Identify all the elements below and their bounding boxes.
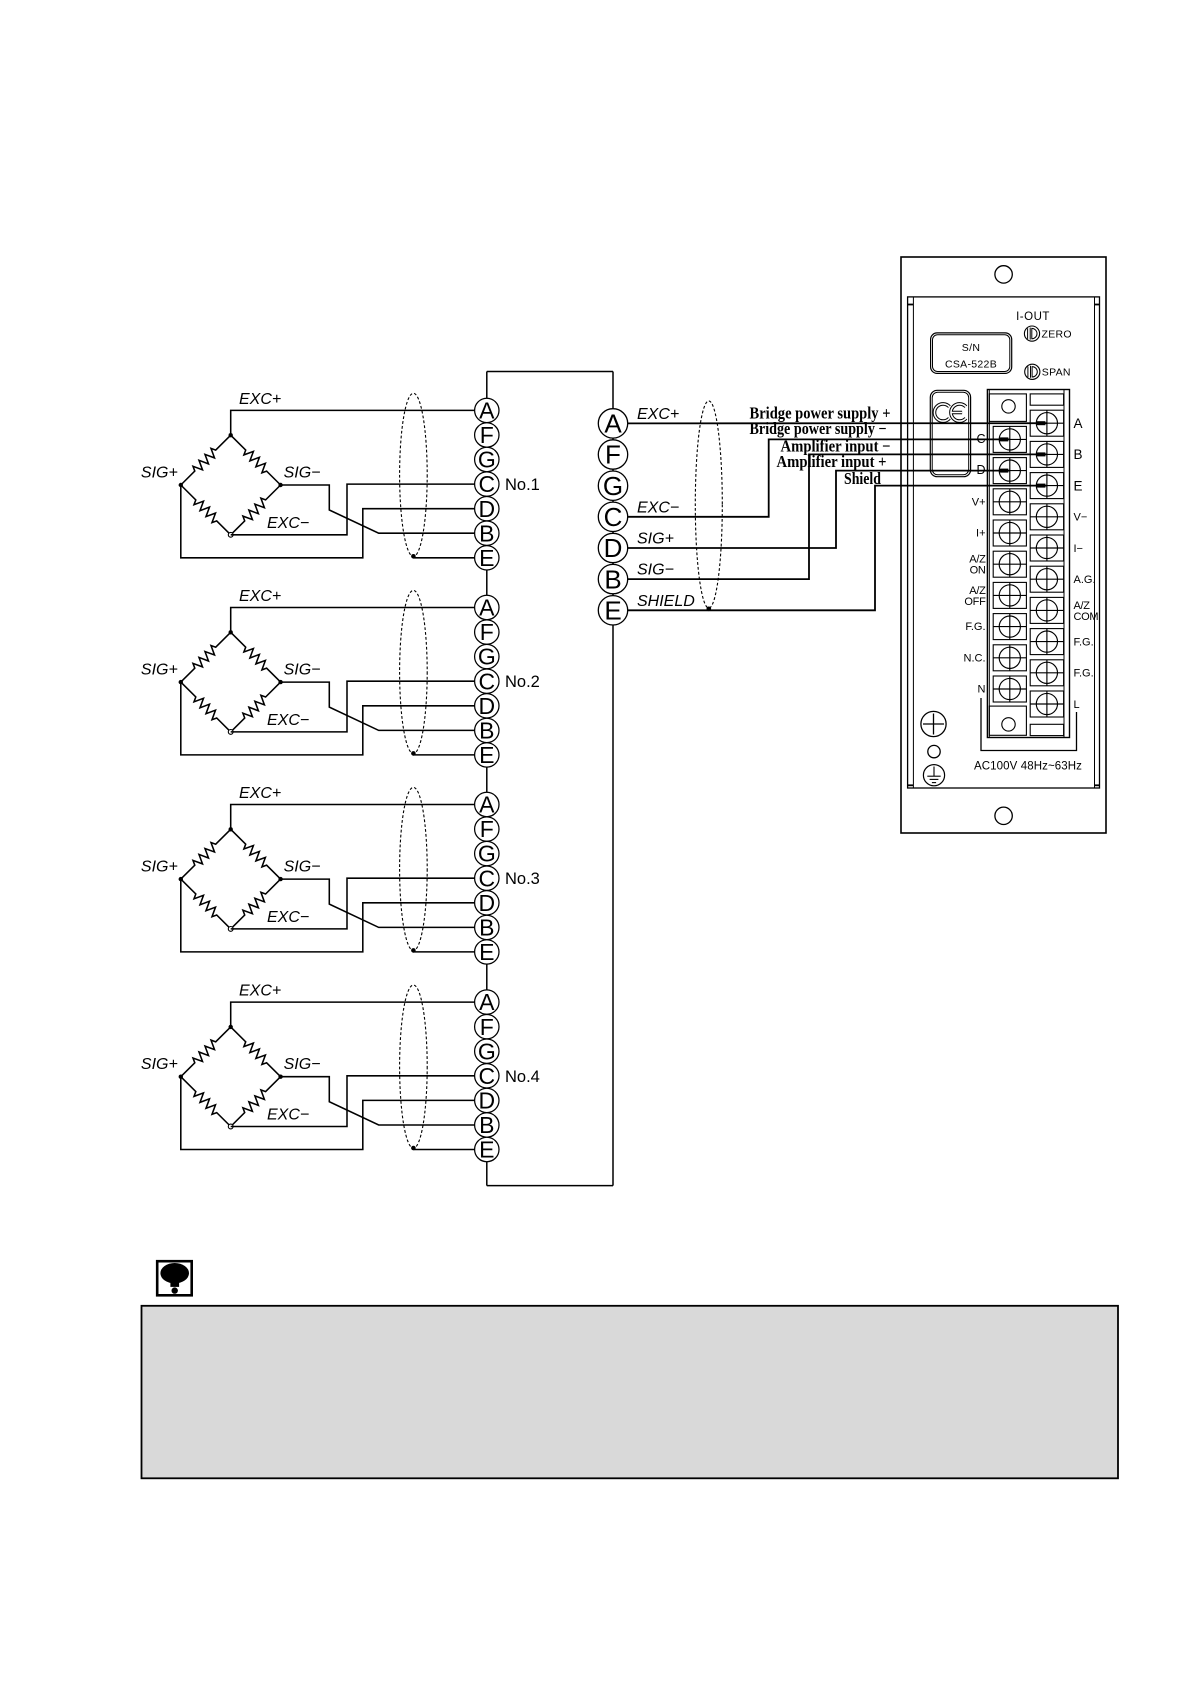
svg-text:A: A	[479, 989, 495, 1015]
svg-text:F: F	[480, 1014, 494, 1040]
note icon	[157, 1261, 192, 1295]
wire EXC- No.1	[231, 484, 475, 535]
svg-text:E: E	[479, 1137, 494, 1163]
svg-text:S/N: S/N	[962, 342, 980, 354]
svg-text:C: C	[478, 668, 495, 694]
svg-text:ZERO: ZERO	[1042, 328, 1072, 340]
terminal block outline	[987, 390, 1069, 738]
svg-text:F: F	[605, 440, 621, 470]
wire EXC- No.3	[231, 878, 475, 929]
wire SIG+ No.4	[181, 1077, 475, 1150]
svg-text:B: B	[604, 564, 621, 594]
terminal block inner right rail	[1063, 390, 1065, 738]
left terminal cell D	[993, 458, 1026, 484]
svg-text:A.G.: A.G.	[1074, 574, 1096, 586]
svg-text:COM: COM	[1074, 611, 1099, 623]
wire EXC+ No.4	[231, 1002, 475, 1027]
svg-text:E: E	[479, 742, 494, 768]
left terminal screw V+	[993, 489, 1026, 515]
svg-text:Amplifier input +: Amplifier input +	[777, 452, 887, 471]
svg-text:G: G	[478, 644, 496, 670]
right terminal screw I-	[1030, 535, 1063, 561]
left terminal screw N	[993, 676, 1026, 702]
svg-text:EXC−: EXC−	[267, 712, 309, 729]
svg-text:No.1: No.1	[505, 476, 540, 494]
load cell bridge No.2	[179, 630, 283, 734]
wire shield No.2	[413, 754, 474, 756]
svg-text:L: L	[1074, 699, 1080, 711]
right terminal cell F.G.	[1030, 660, 1063, 686]
small hole	[928, 745, 940, 757]
left terminal screw A/Z/OFF	[993, 582, 1026, 608]
inner panel rail ticks	[908, 305, 1100, 786]
right terminal screw B	[1030, 441, 1063, 467]
svg-text:F: F	[480, 619, 494, 645]
right terminal cell B	[1030, 441, 1063, 467]
left terminal screw D	[993, 458, 1026, 484]
svg-text:D: D	[478, 890, 495, 916]
svg-text:B: B	[479, 915, 494, 941]
svg-text:B: B	[1074, 447, 1083, 462]
CE mark	[934, 404, 965, 421]
svg-text:G: G	[478, 1038, 496, 1064]
right terminal screw F.G.	[1030, 660, 1063, 686]
bottom mounting hole	[995, 807, 1012, 824]
svg-text:SIG+: SIG+	[637, 531, 674, 548]
load cell bridge No.1	[179, 433, 283, 537]
svg-text:SIG−: SIG−	[284, 1056, 321, 1073]
svg-text:D: D	[976, 463, 985, 477]
terminal circles No.4	[475, 989, 499, 1162]
right terminal screw V-	[1030, 504, 1063, 530]
svg-text:SIG+: SIG+	[141, 1056, 178, 1073]
svg-text:F.G.: F.G.	[965, 621, 985, 633]
svg-text:CSA-522B: CSA-522B	[945, 359, 997, 371]
terminal circles No.2	[475, 595, 499, 768]
shield junction dot No.4	[411, 1146, 416, 1151]
svg-text:F.G.: F.G.	[1074, 668, 1094, 680]
right terminal cell V-	[1030, 504, 1063, 530]
protective earth symbol	[923, 765, 944, 786]
svg-text:No.4: No.4	[505, 1068, 540, 1086]
svg-text:E: E	[479, 545, 494, 571]
svg-text:E: E	[479, 939, 494, 965]
amplifier inner panel	[908, 297, 1100, 788]
right terminal cell I-	[1030, 535, 1063, 561]
svg-text:G: G	[478, 447, 496, 473]
svg-text:I−: I−	[1074, 543, 1083, 555]
junction box top bus wire	[487, 371, 613, 373]
left terminal cell A/Z/ON	[993, 551, 1026, 577]
svg-text:ON: ON	[970, 565, 986, 577]
svg-text:D: D	[478, 1088, 495, 1114]
shield junction dot No.3	[411, 948, 416, 953]
output shield junction dot	[707, 607, 712, 612]
junction box left bus wire	[486, 372, 488, 1186]
terminal block top-left cell with hole	[989, 394, 1026, 422]
AC power bracket	[981, 698, 1077, 751]
svg-text:E: E	[604, 596, 621, 626]
cable shield ellipse No.3	[400, 787, 428, 950]
svg-text:D: D	[478, 693, 495, 719]
svg-text:EXC−: EXC−	[637, 499, 679, 516]
wire shield No.1	[413, 557, 474, 559]
svg-text:OFF: OFF	[964, 596, 986, 608]
right terminal cell F.G.	[1030, 629, 1063, 655]
right terminal screw E	[1030, 473, 1063, 499]
wire SIG+ No.3	[181, 879, 475, 952]
svg-text:SPAN: SPAN	[1042, 367, 1071, 379]
svg-text:EXC+: EXC+	[239, 588, 281, 605]
terminal block bottom-right cell	[1030, 724, 1063, 735]
svg-text:C: C	[478, 471, 495, 497]
right terminal screw A/Z/COM	[1030, 597, 1063, 623]
right terminal screw L	[1030, 691, 1063, 717]
svg-text:I-OUT: I-OUT	[1016, 311, 1050, 323]
wire SIG+ No.1	[181, 485, 475, 558]
svg-text:A: A	[1074, 416, 1083, 431]
left terminal screw N.C.	[993, 645, 1026, 671]
right terminal screw A	[1030, 410, 1063, 436]
svg-text:SIG+: SIG+	[141, 859, 178, 876]
wire EXC+ No.1	[231, 410, 475, 435]
svg-text:E: E	[1074, 478, 1083, 493]
svg-text:I+: I+	[976, 528, 985, 540]
inner panel side rails	[913, 297, 1094, 788]
svg-text:SIG+: SIG+	[141, 662, 178, 679]
svg-text:No.3: No.3	[505, 870, 540, 888]
potentiometer SPAN	[1025, 364, 1040, 379]
right terminal screw A.G.	[1030, 566, 1063, 592]
CE mark plate	[930, 390, 970, 476]
svg-text:B: B	[479, 1112, 494, 1138]
shield junction dot No.2	[411, 751, 416, 756]
svg-text:G: G	[478, 841, 496, 867]
svg-text:D: D	[604, 533, 623, 563]
terminal block top-right cell	[1030, 394, 1063, 405]
svg-text:N: N	[978, 684, 986, 696]
cable shield ellipse No.4	[400, 985, 428, 1148]
svg-text:V+: V+	[972, 496, 986, 508]
output terminal circles A F G C D B E	[598, 409, 627, 626]
svg-text:F: F	[480, 422, 494, 448]
svg-text:C: C	[604, 502, 623, 532]
top mounting hole	[995, 266, 1012, 283]
svg-text:F: F	[480, 816, 494, 842]
wire EXC- No.2	[231, 681, 475, 732]
wire EXC+ No.3	[231, 805, 475, 830]
output cable shield ellipse	[695, 401, 722, 608]
svg-text:SIG−: SIG−	[284, 859, 321, 876]
left terminal cell N.C.	[993, 645, 1026, 671]
wire EXC- No.4	[231, 1076, 475, 1127]
left terminal cell C	[993, 426, 1026, 452]
wire SIG+ to amplifier terminal D	[628, 471, 1010, 548]
svg-text:F.G.: F.G.	[1074, 636, 1094, 648]
wire SIG- No.4	[281, 1077, 475, 1125]
wire EXC+ to amplifier terminal A	[628, 422, 1047, 424]
wire shield No.3	[413, 951, 474, 953]
wire EXC- to amplifier terminal C	[628, 439, 1010, 516]
svg-text:SIG−: SIG−	[284, 465, 321, 482]
right terminal cell L	[1030, 691, 1063, 717]
svg-text:A: A	[479, 398, 495, 424]
svg-text:EXC+: EXC+	[637, 406, 679, 423]
svg-text:EXC+: EXC+	[239, 391, 281, 408]
svg-text:A: A	[479, 792, 495, 818]
potentiometer ZERO	[1024, 326, 1039, 341]
shield junction dot No.1	[411, 554, 416, 559]
wire SIG- No.2	[281, 682, 475, 730]
svg-text:G: G	[603, 471, 623, 501]
amplifier outer panel	[901, 257, 1106, 833]
svg-text:C: C	[478, 865, 495, 891]
wire SIG- to amplifier terminal B	[628, 454, 1047, 579]
svg-text:EXC+: EXC+	[239, 983, 281, 1000]
svg-text:B: B	[479, 718, 494, 744]
right terminal cell A	[1030, 410, 1063, 436]
right terminal cell E	[1030, 473, 1063, 499]
right terminal screw F.G.	[1030, 629, 1063, 655]
wire shield to amplifier terminal E	[628, 486, 1047, 611]
svg-text:Bridge power supply −: Bridge power supply −	[750, 419, 887, 438]
left terminal cell I+	[993, 520, 1026, 546]
svg-text:EXC−: EXC−	[267, 1107, 309, 1124]
wire EXC+ No.2	[231, 608, 475, 633]
terminal block inner left rail	[988, 390, 990, 738]
cable shield ellipse No.1	[400, 393, 428, 556]
svg-text:A: A	[604, 409, 622, 439]
svg-text:SIG−: SIG−	[284, 662, 321, 679]
right terminal cell A/Z/COM	[1030, 597, 1063, 623]
load cell bridge No.4	[179, 1025, 283, 1129]
svg-text:EXC−: EXC−	[267, 515, 309, 532]
svg-text:SIG−: SIG−	[637, 562, 674, 579]
wire SIG+ No.2	[181, 682, 475, 755]
svg-text:EXC−: EXC−	[267, 909, 309, 926]
wire shield No.4	[413, 1149, 474, 1151]
terminal circles No.1	[475, 398, 499, 571]
left terminal cell F.G.	[993, 614, 1026, 640]
svg-text:C: C	[478, 1063, 495, 1089]
svg-text:Shield: Shield	[844, 469, 881, 488]
left terminal screw I+	[993, 520, 1026, 546]
left terminal cell A/Z/OFF	[993, 582, 1026, 608]
svg-text:A: A	[479, 595, 495, 621]
S/N plate	[931, 333, 1012, 374]
terminal wire connection blobs	[999, 421, 1045, 487]
svg-text:AC100V 48Hz~63Hz: AC100V 48Hz~63Hz	[974, 761, 1082, 773]
left terminal cell N	[993, 676, 1026, 702]
load cell bridge No.3	[179, 827, 283, 931]
junction box right bus wire	[612, 372, 614, 1186]
wire SIG- No.3	[281, 879, 475, 927]
svg-text:B: B	[479, 520, 494, 546]
note box	[142, 1306, 1119, 1479]
right terminal cell A.G.	[1030, 566, 1063, 592]
svg-text:SHIELD: SHIELD	[637, 593, 695, 610]
terminal block bottom-left cell with hole	[989, 706, 1026, 735]
svg-text:EXC+: EXC+	[239, 785, 281, 802]
svg-text:SIG+: SIG+	[141, 465, 178, 482]
panel screw bottom-left	[921, 711, 946, 736]
svg-text:N.C.: N.C.	[964, 652, 986, 664]
svg-text:No.2: No.2	[505, 673, 540, 691]
svg-text:C: C	[976, 432, 985, 446]
left terminal cell V+	[993, 489, 1026, 515]
cable shield ellipse No.2	[400, 590, 428, 753]
left terminal screw C	[993, 426, 1026, 452]
svg-text:D: D	[478, 496, 495, 522]
junction box bottom bus wire	[487, 1185, 613, 1187]
left terminal screw F.G.	[993, 614, 1026, 640]
left terminal screw A/Z/ON	[993, 551, 1026, 577]
terminal circles No.3	[475, 792, 499, 965]
svg-text:V−: V−	[1074, 512, 1088, 524]
wire SIG- No.1	[281, 485, 475, 533]
